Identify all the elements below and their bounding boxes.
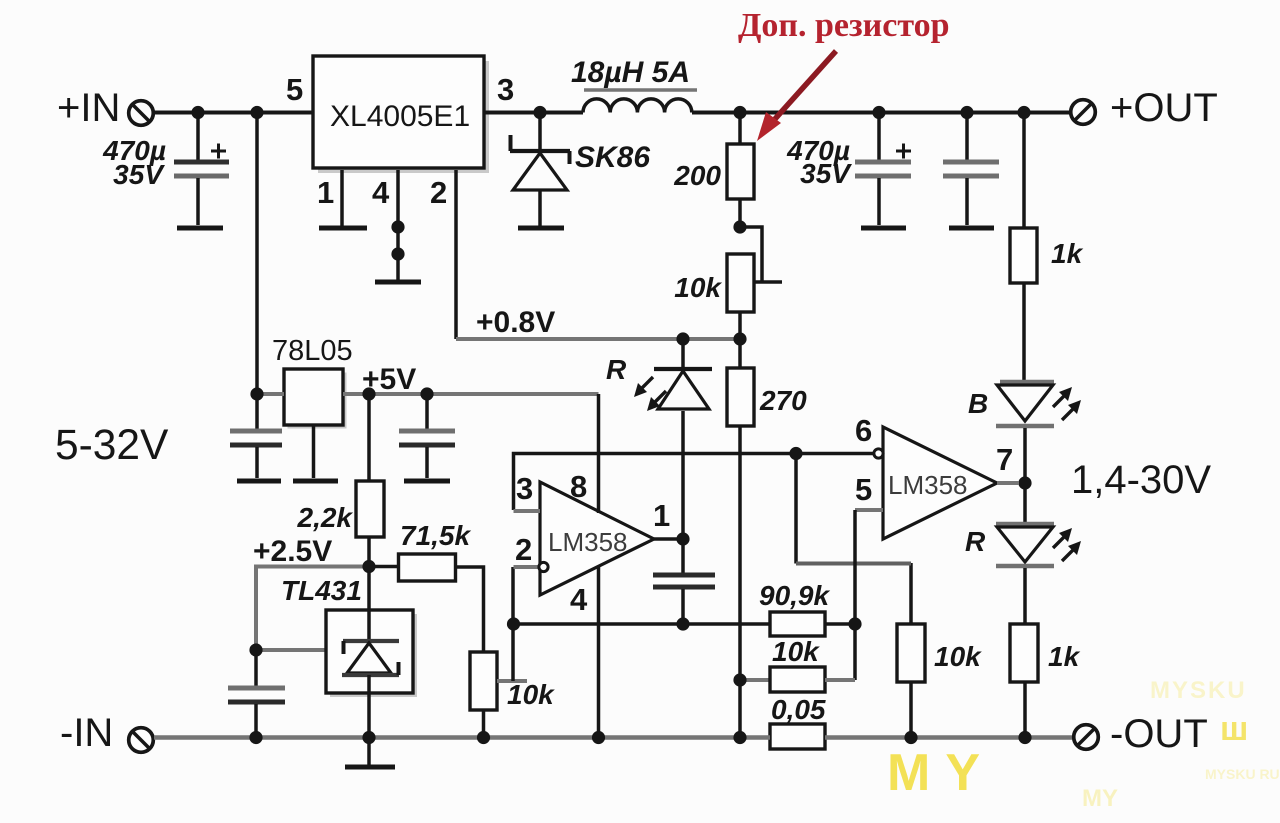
capacitor C7 integrator	[653, 539, 715, 624]
svg-text:8: 8	[570, 469, 587, 504]
svg-text:35V: 35V	[800, 158, 852, 189]
red arrow	[757, 51, 836, 141]
ground of C4	[237, 479, 281, 484]
node rail pin4	[592, 731, 605, 744]
svg-text:2: 2	[515, 532, 532, 567]
svg-text:+2.5V: +2.5V	[253, 535, 332, 568]
svg-text:Доп. резистор: Доп. резистор	[738, 7, 950, 44]
resistor 1k bottom right	[1010, 624, 1038, 737]
terminal +IN	[129, 101, 154, 126]
svg-text:270: 270	[759, 385, 807, 416]
wire pin 8 from +5V	[597, 394, 601, 513]
node 10k-h left	[733, 673, 746, 686]
svg-text:1: 1	[317, 175, 334, 210]
svg-text:SK86: SK86	[575, 141, 650, 174]
op-amp U1 XL4005E1	[313, 56, 489, 173]
svg-text:4: 4	[570, 582, 588, 617]
svg-text:XL4005E1: XL4005E1	[330, 100, 470, 133]
wire negative rail left	[154, 735, 770, 740]
node 90.9k right	[848, 617, 861, 630]
node diode junction	[533, 106, 546, 119]
svg-text:3: 3	[497, 72, 514, 107]
svg-text:LM358: LM358	[548, 527, 628, 557]
resistor 90.9k	[770, 612, 855, 636]
light arrows of HL1	[634, 377, 666, 411]
svg-text:3: 3	[516, 471, 533, 506]
ground of C5	[404, 479, 450, 484]
node rail RP2	[477, 731, 490, 744]
light arrows of HL3	[1053, 528, 1081, 561]
LED HL3 R (right)	[996, 483, 1054, 624]
pin 6 input circle	[874, 449, 883, 458]
op-amp U3A LM358	[540, 482, 654, 595]
terminal +OUT	[1071, 100, 1096, 125]
ground of VD1	[518, 226, 564, 231]
svg-text:TL431: TL431	[281, 575, 362, 606]
ground pin1	[319, 226, 367, 231]
svg-text:200: 200	[673, 160, 721, 191]
ground of C3	[949, 226, 994, 231]
wire XL pin2 down to +0.8V net	[454, 170, 458, 339]
resistor 2.2k	[356, 394, 384, 566]
node pin 1	[676, 532, 689, 545]
svg-text:R: R	[606, 354, 627, 385]
op-amp U3B LM358	[883, 427, 997, 539]
node 1k branch	[1017, 106, 1030, 119]
svg-text:1k: 1k	[1048, 641, 1081, 672]
node pin2 feedback	[507, 617, 520, 630]
wire top rail: inductor to +OUT	[692, 111, 1071, 115]
node pin4 b	[391, 247, 404, 260]
svg-text:10k: 10k	[507, 679, 555, 710]
node +5V to 2.2k	[362, 387, 375, 400]
node +5V to C5	[420, 387, 433, 400]
ground of C2	[861, 226, 906, 231]
svg-text:MY: MY	[1082, 785, 1118, 812]
wire pin 5	[855, 510, 883, 680]
potentiometer RP1 10k	[727, 227, 782, 339]
svg-text:2,2k: 2,2k	[297, 502, 354, 533]
svg-text:10k: 10k	[674, 272, 722, 303]
wire +IN branch down to 78L05	[255, 113, 259, 395]
svg-text:0,05: 0,05	[771, 694, 826, 725]
svg-text:5-32V: 5-32V	[55, 422, 169, 469]
svg-text:MYSKU: MYSKU	[1150, 677, 1247, 704]
svg-text:B: B	[968, 388, 988, 419]
node op2 out pin7	[1018, 476, 1031, 489]
capacitor C5 at 78L05 output	[399, 394, 455, 478]
resistor 1k top right	[1010, 113, 1037, 382]
node 78L05 branch junction	[250, 106, 263, 119]
svg-text:78L05: 78L05	[272, 335, 353, 367]
label C1 value	[102, 135, 166, 190]
capacitor C4 at 78L05 input	[230, 394, 282, 478]
light arrows of HL2	[1053, 387, 1081, 420]
ground of 78L05	[293, 479, 338, 484]
wire top rail left: +IN to XL4005 pin 5	[153, 111, 313, 115]
wire 270 bottom long column	[738, 426, 742, 737]
wire pin 4 to rail	[597, 566, 601, 737]
node pot top	[733, 220, 746, 233]
svg-text:+IN: +IN	[57, 86, 120, 130]
node +0.8V pot junction	[733, 332, 746, 345]
shunt reference TL431	[326, 567, 417, 738]
svg-text:1k: 1k	[1051, 238, 1084, 269]
wire +5V rail	[343, 392, 599, 396]
svg-text:71,5k: 71,5k	[400, 520, 471, 551]
wire pin 7 output	[997, 481, 1019, 485]
underline of L1 label	[584, 88, 697, 91]
ground of C1	[177, 226, 223, 231]
node TL431 ref	[249, 643, 262, 656]
diode VD1 SK86	[510, 113, 570, 227]
wire XL pin4 down	[396, 170, 400, 280]
node rail 10k vertical	[904, 731, 917, 744]
svg-text:10k: 10k	[934, 641, 982, 672]
wire XL pin1 down	[340, 170, 344, 226]
svg-text:MYSKU RU: MYSKU RU	[1205, 766, 1280, 782]
node input cap junction	[191, 106, 204, 119]
node rail C6	[249, 731, 262, 744]
svg-text:90,9k: 90,9k	[759, 580, 830, 611]
ground below rail at TL431	[345, 738, 395, 768]
resistor 10k vertical right	[897, 563, 925, 737]
svg-text:ш: ш	[1220, 710, 1248, 748]
svg-text:4: 4	[372, 175, 390, 210]
pin 2 input circle	[514, 562, 549, 571]
node cap 470u out	[872, 106, 885, 119]
svg-text:2: 2	[430, 175, 447, 210]
potentiometer RP2 10k	[470, 567, 527, 737]
LED HL1 R (middle)	[654, 339, 712, 539]
label C2 value	[786, 135, 852, 189]
resistor R-add 200	[727, 113, 754, 228]
wire pin6 feedback down	[794, 454, 798, 564]
node rail 270 column	[733, 731, 746, 744]
LED HL2 B	[996, 382, 1054, 477]
node rail 1k vertical	[1018, 731, 1031, 744]
terminal -OUT	[1074, 725, 1099, 750]
svg-text:MY: MY	[887, 744, 995, 802]
svg-text:+0.8V: +0.8V	[476, 306, 555, 339]
capacitor C3 output ceramic	[943, 113, 999, 226]
terminal -IN	[129, 728, 154, 753]
svg-text:+OUT: +OUT	[1110, 86, 1218, 130]
wire +2.5V net	[256, 567, 369, 651]
svg-text:1: 1	[653, 498, 670, 533]
svg-text:-OUT: -OUT	[1110, 712, 1208, 756]
capacitor C1 470u 35V input	[174, 113, 229, 226]
wire +0.8V horizontal	[456, 337, 740, 341]
node under C7	[676, 617, 689, 630]
wire pin 1 output	[654, 537, 683, 541]
svg-text:LM358: LM358	[888, 470, 968, 500]
wire pin3 net	[514, 454, 875, 512]
svg-text:5: 5	[286, 72, 303, 107]
node +2.5V	[362, 560, 375, 573]
inductor L1 18uH 5A	[583, 99, 692, 113]
svg-text:1,4-30V: 1,4-30V	[1071, 458, 1211, 502]
resistor shunt 0.05	[770, 724, 825, 749]
wire 78L05 input	[257, 392, 284, 396]
node pin6 feedback	[789, 447, 802, 460]
resistor 10k horizontal	[740, 667, 855, 692]
wire negative rail right	[825, 735, 1072, 740]
svg-text:10k: 10k	[772, 636, 820, 667]
capacitor C6 at TL431 ref	[228, 650, 285, 737]
svg-text:-IN: -IN	[60, 711, 113, 755]
svg-text:5: 5	[855, 472, 872, 507]
wire 78L05 gnd pin	[312, 425, 316, 478]
svg-text:7: 7	[996, 442, 1013, 477]
node pin4 a	[391, 220, 404, 233]
wire top rail: XL pin 3 to inductor	[484, 111, 583, 115]
svg-text:R: R	[965, 526, 986, 557]
wire feedback net y624	[514, 622, 771, 626]
resistor 71.5k	[369, 554, 484, 652]
node switch-node resistor	[733, 106, 746, 119]
voltage regulator U2 78L05	[284, 369, 347, 429]
node input of 78L05	[250, 387, 263, 400]
svg-text:18µH 5A: 18µH 5A	[571, 56, 690, 89]
ground pin4	[375, 280, 421, 285]
node rail TL431	[362, 731, 375, 744]
resistor 270	[727, 339, 754, 426]
capacitor C2 470u 35V output	[855, 113, 911, 226]
svg-text:35V: 35V	[113, 159, 165, 190]
node cap2 out	[960, 106, 973, 119]
svg-text:6: 6	[855, 413, 872, 448]
node +0.8V LED junction	[676, 332, 689, 345]
